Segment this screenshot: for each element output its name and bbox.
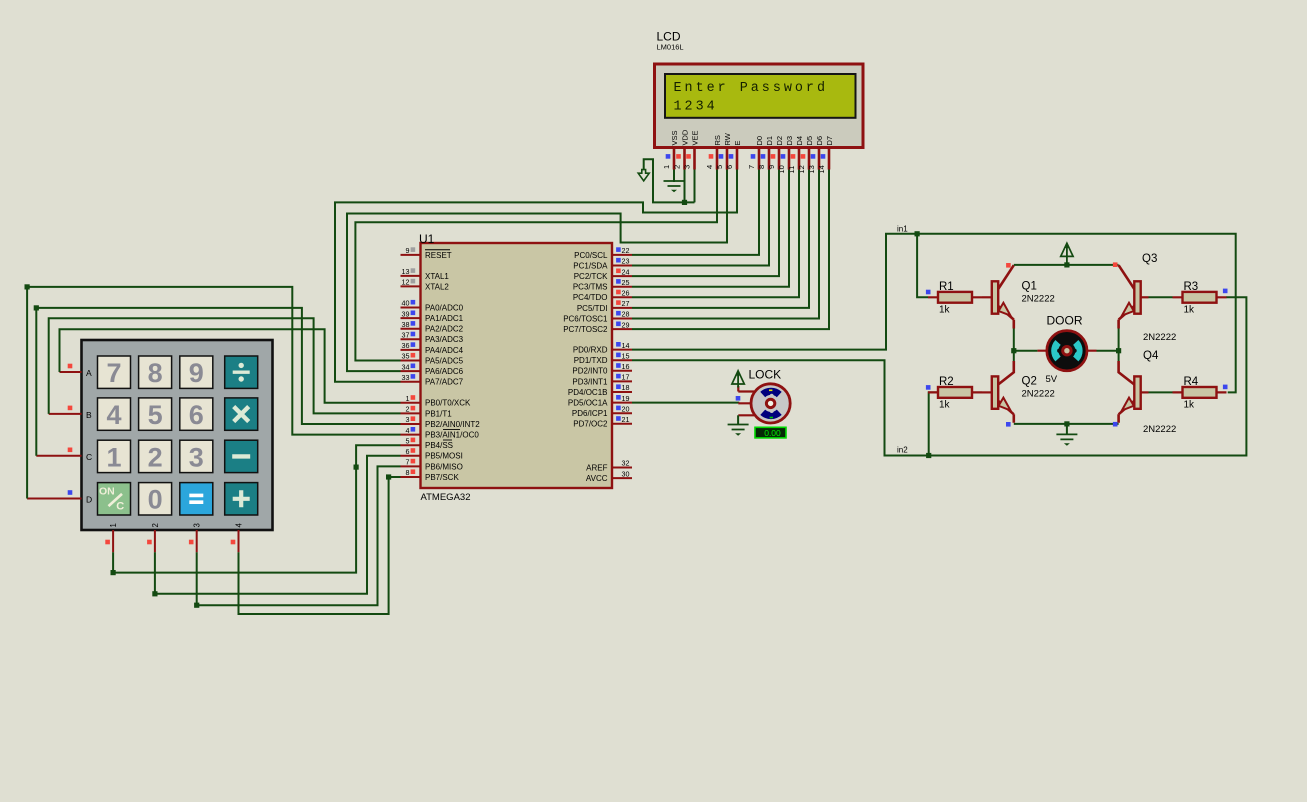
transistor Q4 2N2222 bbox=[1134, 376, 1140, 408]
svg-text:0.00: 0.00 bbox=[764, 428, 781, 438]
svg-text:1k: 1k bbox=[939, 400, 951, 411]
svg-text:PC6/TOSC1: PC6/TOSC1 bbox=[563, 314, 608, 323]
U1 pin 39 PA1/ADC1 bbox=[401, 317, 421, 319]
wire power to VDD/VEE bbox=[644, 159, 695, 202]
svg-text:R2: R2 bbox=[939, 376, 954, 388]
U1 pin 8 PB7/SCK bbox=[401, 476, 421, 478]
svg-text:AVCC: AVCC bbox=[586, 474, 608, 483]
svg-text:7: 7 bbox=[106, 358, 121, 388]
wire PD1 to in2 rail bbox=[632, 297, 1246, 455]
wire 5V top rail bbox=[1014, 264, 1119, 266]
keypad button 0 bbox=[139, 483, 172, 515]
svg-text:0: 0 bbox=[148, 485, 163, 515]
svg-text:PB2/AIN0/INT2: PB2/AIN0/INT2 bbox=[425, 420, 480, 429]
U1 pin 18 PD4/OC1B bbox=[612, 391, 632, 393]
svg-text:3: 3 bbox=[189, 442, 204, 472]
svg-text:20: 20 bbox=[622, 404, 630, 413]
svg-text:1k: 1k bbox=[939, 305, 951, 316]
U1 pin 35 PA5/ADC5 bbox=[401, 360, 421, 362]
U1 pin 17 PD3/INT1 bbox=[612, 380, 632, 382]
wire Q3 base to R3 bbox=[1141, 296, 1149, 298]
keypad button ON/C bbox=[98, 483, 131, 515]
wire PC7 to LCD D7 bbox=[632, 170, 829, 330]
wire PD0 to in1 rail bbox=[632, 234, 1236, 393]
svg-text:RS: RS bbox=[713, 135, 722, 145]
ground (LCD VSS) bbox=[664, 181, 685, 186]
indicator Q3 collector bbox=[1113, 262, 1118, 267]
svg-text:ATMEGA32: ATMEGA32 bbox=[421, 492, 471, 503]
svg-text:RW: RW bbox=[723, 132, 732, 145]
svg-text:23: 23 bbox=[622, 257, 630, 266]
wire RW to PA6 bbox=[347, 170, 727, 372]
svg-text:U1: U1 bbox=[419, 232, 435, 246]
U1 pin 9 RESET bbox=[401, 254, 421, 256]
indicator Q2 emitter bbox=[1006, 422, 1011, 427]
wire keypad row D to U1 bbox=[27, 287, 400, 499]
wire 5V arrow stem bbox=[1066, 256, 1068, 265]
svg-text:22: 22 bbox=[622, 246, 630, 255]
indicator Q4 emitter bbox=[1113, 422, 1118, 427]
U1 pin 33 PA7/ADC7 bbox=[401, 381, 421, 383]
U1 pin 32 AREF bbox=[612, 467, 632, 469]
U1 pin 34 PA6/ADC6 bbox=[401, 370, 421, 372]
wire keypad column 3 to U1 bbox=[197, 466, 401, 605]
U1 pin 21 PD7/OC2 bbox=[612, 423, 632, 425]
svg-text:25: 25 bbox=[622, 278, 630, 287]
svg-text:PA2/ADC2: PA2/ADC2 bbox=[425, 325, 464, 334]
keypad column pin 4 bbox=[238, 530, 240, 552]
svg-text:2: 2 bbox=[673, 165, 682, 169]
svg-text:36: 36 bbox=[402, 341, 410, 350]
power arrow LOCK bbox=[732, 371, 744, 384]
junction in2/R2 bbox=[926, 453, 931, 458]
U1 pin 5 PB4/SS bbox=[401, 444, 421, 446]
junction column 2 bbox=[152, 591, 157, 596]
wire Q4 collector bbox=[1118, 351, 1120, 361]
indicator R1 left bbox=[926, 290, 931, 295]
keypad row pin C bbox=[36, 455, 81, 457]
svg-text:C: C bbox=[86, 452, 92, 462]
U1 pin 29 PC7/TOSC2 bbox=[612, 328, 632, 330]
transistor Q1 2N2222 bbox=[982, 296, 992, 298]
svg-text:5: 5 bbox=[406, 436, 410, 445]
svg-text:2N2222: 2N2222 bbox=[1022, 389, 1055, 400]
U1 pin 16 PD2/INT0 bbox=[612, 370, 632, 372]
svg-text:16: 16 bbox=[622, 362, 630, 371]
wire PC0 to LCD D0 bbox=[632, 170, 759, 255]
svg-text:D4: D4 bbox=[795, 136, 804, 146]
wire keypad column 4 to U1 bbox=[239, 477, 401, 614]
svg-text:4: 4 bbox=[106, 400, 121, 430]
wire PC1 to LCD D1 bbox=[632, 170, 769, 266]
junction in1/R1 bbox=[915, 231, 920, 236]
U1 pin 19 PD5/OC1A bbox=[612, 402, 632, 404]
U1 pin 7 PB6/MISO bbox=[401, 465, 421, 467]
svg-text:B: B bbox=[86, 410, 92, 420]
wire motor left bbox=[1014, 350, 1038, 352]
wire VEE down bbox=[694, 170, 696, 203]
U1 pin 12 XTAL2 bbox=[401, 285, 421, 287]
wire in1 to R1 bbox=[917, 234, 928, 297]
svg-text:ON: ON bbox=[99, 485, 115, 497]
svg-text:13: 13 bbox=[402, 267, 410, 276]
svg-text:1k: 1k bbox=[1184, 400, 1196, 411]
wire Q1 emitter down bbox=[1013, 329, 1015, 351]
U1 pin 15 PD1/TXD bbox=[612, 359, 632, 361]
wire in2 to R2 bbox=[929, 392, 938, 455]
svg-text:PB7/SCK: PB7/SCK bbox=[425, 473, 459, 482]
junction row C bbox=[34, 305, 39, 310]
svg-text:LOCK: LOCK bbox=[749, 368, 782, 382]
U1 pin 23 PC1/SDA bbox=[612, 265, 632, 267]
keypad button equals bbox=[180, 483, 213, 515]
svg-text:9: 9 bbox=[406, 246, 410, 255]
svg-text:R4: R4 bbox=[1184, 376, 1199, 388]
svg-text:RESET: RESET bbox=[425, 251, 452, 260]
svg-text:PC7/TOSC2: PC7/TOSC2 bbox=[563, 325, 608, 334]
svg-text:26: 26 bbox=[622, 289, 630, 298]
svg-text:39: 39 bbox=[402, 309, 410, 318]
keypad row pin B bbox=[49, 413, 82, 415]
svg-text:PA3/ADC3: PA3/ADC3 bbox=[425, 335, 464, 344]
indicator R2 left bbox=[926, 385, 931, 390]
keypad row pin D bbox=[27, 498, 81, 500]
keypad row pin A bbox=[60, 371, 82, 373]
wire PC4 to LCD D4 bbox=[632, 170, 799, 298]
U1 pin 4 PB3/AIN1/OC0 bbox=[401, 434, 421, 436]
indicator Q1 collector bbox=[1006, 263, 1011, 268]
svg-text:Enter Password: Enter Password bbox=[674, 81, 829, 96]
svg-text:6: 6 bbox=[406, 447, 410, 456]
svg-text:VDD: VDD bbox=[680, 129, 689, 145]
svg-text:LCD: LCD bbox=[657, 30, 681, 44]
LCD LM016L body bbox=[655, 64, 864, 148]
svg-text:4: 4 bbox=[406, 426, 410, 435]
meter readout 0.00 bbox=[755, 427, 786, 438]
svg-text:4: 4 bbox=[235, 523, 244, 528]
svg-text:5: 5 bbox=[715, 165, 724, 169]
svg-text:2N2222: 2N2222 bbox=[1022, 294, 1055, 305]
indicator square LOCK pin bbox=[736, 396, 741, 401]
svg-text:17: 17 bbox=[622, 373, 630, 382]
svg-text:PA7/ADC7: PA7/ADC7 bbox=[425, 378, 464, 387]
svg-text:VSS: VSS bbox=[670, 130, 679, 145]
wire PC3 to LCD D3 bbox=[632, 170, 789, 287]
svg-text:1: 1 bbox=[406, 394, 410, 403]
svg-text:9: 9 bbox=[767, 165, 776, 169]
svg-text:8: 8 bbox=[757, 165, 766, 169]
svg-text:PB5/MOSI: PB5/MOSI bbox=[425, 452, 463, 461]
svg-text:in2: in2 bbox=[897, 446, 908, 455]
svg-text:PD2/INT0: PD2/INT0 bbox=[572, 367, 608, 376]
svg-text:D7: D7 bbox=[825, 136, 834, 146]
svg-text:1: 1 bbox=[662, 165, 671, 169]
svg-text:1k: 1k bbox=[1184, 305, 1196, 316]
wire E to PA7 bbox=[335, 170, 737, 382]
svg-text:14: 14 bbox=[622, 341, 630, 350]
svg-text:E: E bbox=[733, 140, 742, 145]
svg-text:in1: in1 bbox=[897, 225, 908, 234]
U1 pin 40 PA0/ADC0 bbox=[401, 307, 421, 309]
U1 pin 38 PA2/ADC2 bbox=[401, 328, 421, 330]
keypad button minus bbox=[225, 440, 258, 472]
wire VDD down bbox=[684, 170, 686, 203]
svg-text:7: 7 bbox=[406, 458, 410, 467]
keypad column pin 1 bbox=[112, 530, 114, 552]
svg-text:C: C bbox=[116, 501, 124, 513]
svg-text:34: 34 bbox=[402, 362, 410, 371]
svg-text:PD5/OC1A: PD5/OC1A bbox=[568, 399, 608, 408]
keypad column pin 3 bbox=[196, 530, 198, 552]
wire motor right bbox=[1097, 350, 1119, 352]
svg-text:8: 8 bbox=[406, 468, 410, 477]
svg-text:7: 7 bbox=[747, 165, 756, 169]
wire keypad row A to U1 bbox=[60, 329, 401, 403]
svg-text:37: 37 bbox=[402, 331, 410, 340]
svg-text:21: 21 bbox=[622, 415, 630, 424]
wire ground stem bbox=[1066, 424, 1068, 435]
svg-text:5: 5 bbox=[148, 400, 163, 430]
svg-text:PA4/ADC4: PA4/ADC4 bbox=[425, 346, 464, 355]
svg-text:2: 2 bbox=[406, 405, 410, 414]
svg-text:12: 12 bbox=[402, 278, 410, 287]
svg-text:30: 30 bbox=[622, 469, 630, 478]
wire LOCK lower pin to ground bbox=[737, 415, 739, 424]
U1 pin 37 PA3/ADC3 bbox=[401, 338, 421, 340]
keypad button 3 bbox=[180, 440, 213, 472]
wire PC5 to LCD D5 bbox=[632, 170, 809, 308]
U1 pin 28 PC6/TOSC1 bbox=[612, 318, 632, 320]
wire keypad column 2 to U1 bbox=[155, 456, 401, 594]
wire Q4 base to R4 bbox=[1141, 391, 1149, 393]
svg-text:8: 8 bbox=[148, 358, 163, 388]
keypad column pin 2 bbox=[154, 530, 156, 552]
svg-text:PC5/TDI: PC5/TDI bbox=[577, 304, 608, 313]
svg-text:3: 3 bbox=[683, 165, 692, 169]
U1 pin 13 XTAL1 bbox=[401, 275, 421, 277]
keypad button 2 bbox=[139, 440, 172, 472]
power terminal arrow (down) near LCD bbox=[638, 170, 649, 181]
svg-text:33: 33 bbox=[402, 373, 410, 382]
indicator R4 right bbox=[1223, 385, 1228, 390]
svg-text:DOOR: DOOR bbox=[1047, 314, 1083, 328]
U1 pin 2 PB1/T1 bbox=[401, 412, 421, 414]
wire Q3 emitter down bbox=[1118, 329, 1120, 351]
svg-text:9: 9 bbox=[189, 358, 204, 388]
transistor Q3 2N2222 bbox=[1134, 281, 1140, 313]
resistor R4 1k bbox=[1173, 391, 1227, 393]
U1 pin 20 PD6/ICP1 bbox=[612, 412, 632, 414]
svg-text:PB0/T0/XCK: PB0/T0/XCK bbox=[425, 399, 471, 408]
svg-text:24: 24 bbox=[622, 267, 630, 276]
keypad button multiply bbox=[225, 398, 258, 430]
U1 pin 24 PC2/TCK bbox=[612, 275, 632, 277]
keypad panel bbox=[82, 340, 273, 530]
svg-text:2: 2 bbox=[151, 523, 160, 527]
svg-text:XTAL2: XTAL2 bbox=[425, 282, 449, 291]
svg-text:PB6/MISO: PB6/MISO bbox=[425, 462, 463, 471]
svg-text:3: 3 bbox=[406, 415, 410, 424]
svg-text:PC0/SCL: PC0/SCL bbox=[574, 251, 608, 260]
transistor Q2 2N2222 bbox=[982, 391, 992, 393]
wire PC2 to LCD D2 bbox=[632, 170, 779, 277]
wire VSS pin1 to ground bbox=[673, 170, 675, 183]
svg-text:PD4/OC1B: PD4/OC1B bbox=[568, 388, 608, 397]
svg-text:3: 3 bbox=[193, 523, 202, 527]
svg-text:2: 2 bbox=[148, 442, 163, 472]
junction bottom rail bbox=[1064, 421, 1069, 426]
junction VDD net bbox=[682, 200, 687, 205]
svg-text:PD0/RXD: PD0/RXD bbox=[573, 346, 608, 355]
svg-text:Q1: Q1 bbox=[1022, 281, 1037, 293]
svg-text:PB3/AIN1/OC0: PB3/AIN1/OC0 bbox=[425, 431, 479, 440]
svg-text:27: 27 bbox=[622, 299, 630, 308]
svg-text:4: 4 bbox=[705, 165, 714, 169]
wire keypad row B to U1 bbox=[49, 318, 401, 414]
motor LOCK bbox=[738, 392, 754, 416]
power arrow 5V (H-bridge) bbox=[1061, 243, 1073, 256]
svg-text:A: A bbox=[86, 368, 92, 378]
svg-text:AREF: AREF bbox=[586, 463, 607, 472]
svg-text:35: 35 bbox=[402, 352, 410, 361]
svg-text:32: 32 bbox=[622, 459, 630, 468]
wire Q2 collector bbox=[1013, 351, 1015, 361]
U1 pin 27 PC5/TDI bbox=[612, 307, 632, 309]
svg-text:D3: D3 bbox=[785, 136, 794, 146]
svg-text:PC3/TMS: PC3/TMS bbox=[573, 283, 608, 292]
svg-text:19: 19 bbox=[622, 394, 630, 403]
U1 pin 3 PB2/AIN0/INT2 bbox=[401, 423, 421, 425]
svg-text:PA5/ADC5: PA5/ADC5 bbox=[425, 356, 464, 365]
svg-text:28: 28 bbox=[622, 310, 630, 319]
svg-text:PA6/ADC6: PA6/ADC6 bbox=[425, 367, 464, 376]
svg-text:PC4/TDO: PC4/TDO bbox=[573, 293, 608, 302]
svg-text:R3: R3 bbox=[1184, 281, 1199, 293]
svg-text:2N2222: 2N2222 bbox=[1143, 332, 1176, 343]
svg-text:29: 29 bbox=[622, 320, 630, 329]
U1 pin 30 AVCC bbox=[612, 477, 632, 479]
U1 pin 14 PD0/RXD bbox=[612, 349, 632, 351]
wire RS to PA5 bbox=[355, 170, 717, 361]
svg-text:15: 15 bbox=[622, 351, 630, 360]
ground (H-bridge) bbox=[1056, 434, 1077, 439]
ground (LOCK) bbox=[728, 425, 749, 430]
svg-text:PD6/ICP1: PD6/ICP1 bbox=[572, 409, 608, 418]
svg-text:1: 1 bbox=[109, 523, 118, 527]
junction motor left bbox=[1011, 348, 1016, 353]
keypad button 6 bbox=[180, 398, 213, 430]
wire bottom rail bbox=[1014, 423, 1119, 425]
svg-text:D: D bbox=[86, 495, 92, 505]
junction column 3 bbox=[194, 603, 199, 608]
svg-text:PD1/TXD: PD1/TXD bbox=[574, 356, 608, 365]
keypad button plus bbox=[225, 483, 258, 515]
svg-text:Q3: Q3 bbox=[1142, 253, 1157, 265]
U1 pin 36 PA4/ADC4 bbox=[401, 349, 421, 351]
svg-text:D5: D5 bbox=[805, 136, 814, 146]
svg-text:D6: D6 bbox=[815, 136, 824, 146]
svg-text:40: 40 bbox=[402, 299, 410, 308]
svg-text:38: 38 bbox=[402, 320, 410, 329]
svg-text:PA0/ADC0: PA0/ADC0 bbox=[425, 303, 464, 312]
U1 pin 26 PC4/TDO bbox=[612, 296, 632, 298]
svg-text:5V: 5V bbox=[1046, 374, 1058, 385]
resistor R3 1k bbox=[1173, 296, 1227, 298]
svg-text:PB4/SS: PB4/SS bbox=[425, 441, 453, 450]
svg-text:XTAL1: XTAL1 bbox=[425, 272, 449, 281]
junction motor right bbox=[1116, 348, 1121, 353]
resistor R1 1k bbox=[928, 296, 982, 298]
svg-text:Q2: Q2 bbox=[1022, 376, 1037, 388]
svg-text:D1: D1 bbox=[765, 136, 774, 146]
svg-text:1: 1 bbox=[106, 442, 121, 472]
U1 pin 6 PB5/MOSI bbox=[401, 455, 421, 457]
svg-text:PC2/TCK: PC2/TCK bbox=[574, 272, 608, 281]
svg-text:1234: 1234 bbox=[674, 99, 718, 114]
svg-text:2N2222: 2N2222 bbox=[1143, 424, 1176, 435]
keypad button 7 bbox=[98, 356, 131, 388]
indicator R3 right bbox=[1223, 289, 1228, 294]
svg-text:PB1/T1: PB1/T1 bbox=[425, 409, 452, 418]
overline SS bbox=[443, 439, 452, 441]
svg-text:PD3/INT1: PD3/INT1 bbox=[572, 377, 608, 386]
svg-text:VEE: VEE bbox=[690, 130, 699, 145]
svg-text:D0: D0 bbox=[755, 136, 764, 146]
keypad button 4 bbox=[98, 398, 131, 430]
keypad button 8 bbox=[139, 356, 172, 388]
U1 pin 25 PC3/TMS bbox=[612, 286, 632, 288]
wire keypad row C to U1 bbox=[36, 308, 400, 456]
LCD green screen bbox=[665, 74, 856, 118]
U1 pin 1 PB0/T0/XCK bbox=[401, 402, 421, 404]
svg-text:R1: R1 bbox=[939, 281, 954, 293]
junction 5V rail bbox=[1064, 262, 1069, 267]
wire PD5 to LOCK bbox=[632, 402, 738, 405]
keypad button 9 bbox=[180, 356, 213, 388]
keypad button 1 bbox=[98, 440, 131, 472]
svg-text:PA1/ADC1: PA1/ADC1 bbox=[425, 314, 464, 323]
keypad button divide bbox=[225, 356, 258, 388]
junction row D bbox=[25, 284, 30, 289]
overline AIN1 bbox=[443, 428, 460, 430]
resistor R2 1k bbox=[928, 391, 982, 393]
junction column 1 bbox=[111, 570, 116, 575]
svg-text:6: 6 bbox=[189, 400, 204, 430]
U1 pin 22 PC0/SCL bbox=[612, 254, 632, 256]
wire keypad column 1 to U1 bbox=[113, 445, 400, 572]
svg-text:LM016L: LM016L bbox=[657, 43, 684, 52]
junction on PB4 wire bbox=[354, 465, 359, 470]
svg-text:PD7/OC2: PD7/OC2 bbox=[573, 420, 608, 429]
svg-text:Q4: Q4 bbox=[1143, 350, 1159, 362]
keypad button 5 bbox=[139, 398, 172, 430]
junction PB7 corner bbox=[386, 474, 391, 479]
svg-text:18: 18 bbox=[622, 383, 630, 392]
svg-text:PC1/SDA: PC1/SDA bbox=[573, 261, 608, 270]
wire PC6 to LCD D6 bbox=[632, 170, 819, 319]
op U1 box ATMEGA32 bbox=[421, 243, 613, 488]
svg-text:D2: D2 bbox=[775, 136, 784, 146]
svg-text:6: 6 bbox=[725, 165, 734, 169]
